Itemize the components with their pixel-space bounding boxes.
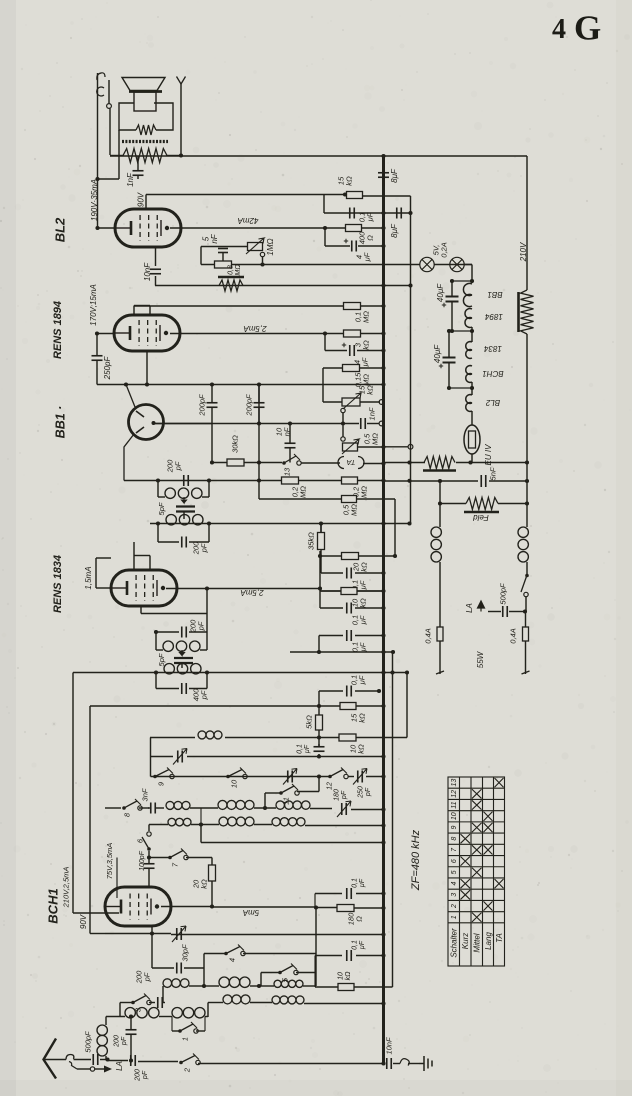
capacitor 250pF: [92, 355, 103, 357]
node (320,588.5): [318, 586, 322, 590]
label 5pF a: [157, 502, 166, 515]
label BCH1: [46, 888, 61, 923]
label 180pF: [334, 789, 349, 801]
label 0.1uF h: [352, 878, 367, 888]
wire x201 drop: [200, 825, 202, 843]
coil osc2b: [272, 996, 280, 1004]
svg-text:RENS 1834: RENS 1834: [52, 555, 64, 613]
node (449,388): [447, 386, 451, 390]
node (383.5,908): [381, 906, 385, 910]
capacitor 0.1uF d: [346, 630, 348, 641]
wire sw5 line: [261, 972, 280, 974]
node (147,384): [145, 382, 149, 386]
wire screen up x116: [116, 858, 118, 899]
label 0.1uF c: [351, 615, 368, 626]
svg-text:kΩ: kΩ: [360, 562, 369, 572]
label 0.15M: [354, 372, 371, 387]
switch table grid: [448, 777, 505, 966]
wire y246 left seg: [201, 246, 248, 248]
node (383.5,1003.5): [381, 1001, 385, 1005]
label 1: [181, 1037, 190, 1041]
BB1 electrodes: [136, 411, 144, 433]
svg-text:kΩ: kΩ: [200, 879, 209, 889]
svg-text:pF: pF: [142, 1070, 149, 1080]
label 10nF b: [275, 427, 292, 436]
node (181,155.5): [179, 153, 183, 157]
svg-text:12: 12: [326, 782, 333, 790]
wire x150 drop: [150, 738, 152, 777]
label 250pF: [358, 786, 373, 799]
node (383.5,246): [381, 244, 385, 248]
capacitor 0.1uF h: [346, 888, 348, 899]
node T (325,228): [323, 226, 327, 230]
svg-text:Lang: Lang: [484, 932, 493, 950]
svg-text:0,4A: 0,4A: [509, 628, 518, 643]
tube BCH1: [105, 887, 171, 926]
svg-text:8μF: 8μF: [390, 223, 399, 238]
wire y228 to bus: [361, 227, 384, 229]
svg-text:1834: 1834: [484, 344, 502, 353]
node (410.5,285.5): [408, 283, 412, 287]
wire 1894 grid legs: [134, 305, 150, 307]
node (449,331)b: [447, 329, 451, 333]
label RENS1894: [52, 301, 64, 359]
wire 40uF b links: [449, 387, 472, 389]
svg-text:nF: nF: [283, 427, 292, 436]
tube RENS1894: [114, 315, 180, 351]
node (259,480.5): [257, 478, 261, 482]
node (265,808): [263, 806, 267, 810]
label 0.1uF d: [351, 642, 368, 653]
wire y556: [321, 555, 341, 557]
capacitor 5pF a: [176, 507, 195, 512]
node (393,652): [391, 650, 395, 654]
coil ant main: [125, 1008, 135, 1018]
node (319,756.5): [317, 754, 321, 758]
wire 1834 screen loop: [206, 589, 208, 614]
svg-text:kΩ: kΩ: [345, 176, 354, 186]
node (410.5,213): [408, 211, 412, 215]
lamp 1: [420, 257, 434, 271]
label Feld: [473, 513, 489, 522]
capacitor 40uF b: [443, 357, 456, 359]
label 35k: [307, 532, 316, 550]
capacitor 5nF: [218, 248, 228, 250]
wire x440 end: [439, 641, 441, 674]
resistor 10k a: [341, 588, 357, 595]
label 0.1M a: [354, 311, 371, 323]
node (383.5,825.5): [381, 823, 385, 827]
svg-text:200: 200: [135, 1069, 142, 1082]
antenna arrow LA b: [478, 601, 485, 612]
capacitor 0.1uF b: [346, 568, 348, 579]
label 10nF c: [385, 1037, 394, 1055]
capacitor 400pF: [181, 683, 183, 694]
wire x525 end: [525, 641, 527, 674]
wire 20k stub: [211, 858, 213, 866]
label 0.8MOhm: [228, 264, 243, 276]
wire y913 to tube: [73, 912, 119, 914]
svg-text:MΩ: MΩ: [360, 486, 369, 498]
wire BL2 cathode down x155: [155, 247, 157, 266]
resistor Feld: [466, 498, 498, 510]
svg-text:30pF: 30pF: [181, 944, 190, 962]
wire BL2 left: [98, 227, 116, 229]
node (395,556): [393, 554, 397, 558]
resistor 30k: [227, 459, 244, 466]
switch 11: [279, 791, 283, 795]
svg-text:G: G: [574, 9, 601, 48]
wire branch x325 b: [324, 334, 326, 351]
capacitor 4uF b: [349, 345, 351, 356]
node (201,824.5): [199, 822, 203, 826]
node (97,333.5): [95, 331, 99, 335]
node (383.5,573): [381, 571, 385, 575]
wire x201 jog: [200, 247, 202, 265]
wire grid drop x152: [151, 926, 153, 934]
heater BL2: [466, 395, 472, 404]
node (383.5,333.5): [381, 331, 385, 335]
heater 1894: [465, 309, 472, 319]
wire grid tap 1834: [134, 555, 150, 557]
node (345,194.5): [343, 192, 347, 196]
node (212,384): [210, 382, 214, 386]
label 500pF a: [84, 1031, 93, 1053]
wire v x527 seg2: [526, 334, 528, 463]
switch 9: [153, 775, 157, 779]
wire sw3 left: [120, 1002, 133, 1004]
capacitor 200pF a: [207, 402, 218, 404]
node (383.5,591): [381, 589, 385, 593]
svg-text:TA: TA: [346, 458, 355, 467]
node (320,556): [318, 554, 322, 558]
svg-text:1nF: 1nF: [126, 172, 135, 187]
svg-text:5: 5: [451, 870, 458, 874]
node (107.5,1059.5): [105, 1057, 109, 1061]
trimmer cap a: [177, 751, 179, 763]
node (158,523.5): [156, 521, 160, 525]
wire 1834 left: [96, 587, 111, 589]
node (383.5,368): [381, 366, 385, 370]
wire x163 v: [162, 986, 164, 1003]
wire rail y652: [290, 651, 393, 653]
wire y591 (1834 plate ext): [320, 590, 384, 592]
node (452,331): [450, 329, 454, 333]
resistor 400: [346, 225, 362, 232]
node (383.5,285.5): [381, 283, 385, 287]
tube BB1 circle: [129, 405, 164, 440]
label heater BB1: [487, 290, 502, 299]
svg-text:200pF: 200pF: [245, 394, 254, 417]
node (321,523.5): [319, 521, 323, 525]
node (383.5,350.5): [381, 348, 385, 352]
svg-text:5pF: 5pF: [157, 502, 166, 515]
node (383.5,842.5): [381, 840, 385, 844]
coil A2: [168, 818, 176, 826]
terminal circle (92.5,1069): [90, 1067, 94, 1071]
wire x527 sw to 500p: [525, 597, 527, 611]
wire y246: [325, 245, 350, 247]
wire speaker-left rail x97 top: [97, 73, 99, 179]
switch 13: [282, 461, 286, 465]
heater BB1: [463, 283, 472, 295]
label 10k b: [349, 744, 366, 754]
node (527,481): [525, 479, 529, 483]
svg-text:Mittel: Mittel: [473, 933, 482, 952]
label 3nF: [141, 788, 150, 801]
node (343,423.5): [341, 421, 345, 425]
capacitor 1nF b: [360, 418, 362, 429]
capacitor 200pF i: [126, 1029, 137, 1031]
node (383.5,955.5): [381, 953, 385, 957]
label 3: [134, 1007, 143, 1012]
label 55W: [476, 650, 485, 668]
resistor 180: [337, 905, 354, 912]
wire x525 to fuse: [525, 612, 527, 628]
node (392.5,672.5): [390, 670, 394, 674]
label 0.1uF g: [352, 940, 367, 950]
svg-text:13: 13: [451, 779, 458, 787]
label 200pF f: [135, 970, 152, 984]
speaker driver box: [134, 92, 156, 111]
svg-text:kΩ: kΩ: [345, 971, 352, 981]
resistor 0.2M a: [282, 477, 299, 484]
wire x259 drop2: [258, 481, 260, 500]
svg-text:Ω: Ω: [366, 235, 375, 241]
node (156,672.5): [154, 670, 158, 674]
label 0.1uF f: [297, 744, 312, 754]
terminal circle (381.5,402): [379, 400, 384, 405]
node (383.5,463.5): [381, 461, 385, 465]
wire x319 5k seg: [318, 706, 320, 715]
capacitor 200pF d: [181, 537, 183, 548]
label 5nF b: [489, 467, 498, 480]
svg-text:kΩ: kΩ: [366, 385, 375, 395]
label 11: [282, 797, 291, 805]
svg-text:10nF: 10nF: [143, 262, 152, 281]
resistor 10k b: [339, 734, 356, 741]
coil osc coupling: [172, 1008, 182, 1018]
svg-text:pF: pF: [365, 787, 372, 797]
label EU IV: [484, 444, 493, 466]
label 0.4A left: [424, 628, 433, 643]
resistor 35k: [318, 533, 325, 550]
coil IF1 primary: [165, 488, 175, 498]
switch table headers: [450, 928, 459, 958]
capacitor 200pF b: [254, 402, 265, 404]
svg-text:μF: μF: [359, 615, 368, 625]
wire corner x407: [406, 673, 408, 738]
ground symbol: [419, 1056, 432, 1071]
label LA b: [465, 603, 474, 613]
coil IF1 secondary: [166, 515, 176, 525]
capacitor 0.1uF f: [314, 746, 325, 748]
wire x321 seg2: [320, 556, 322, 573]
node (383.5,608): [381, 606, 385, 610]
wire BL2 plate rail y228: [170, 227, 346, 229]
wire sw1 stubs: [172, 1030, 180, 1032]
label 200pF c: [166, 459, 183, 473]
capacitor 200pF h: [130, 1055, 132, 1066]
svg-text:Feld: Feld: [473, 513, 489, 522]
wire y608: [320, 607, 343, 609]
wire x319 0.1uF seg: [318, 754, 320, 757]
label heater 1834: [484, 344, 502, 353]
svg-text:90V: 90V: [136, 192, 145, 207]
potentiometer 1M: [248, 243, 263, 251]
label 5pF b: [157, 653, 166, 666]
svg-text:MΩ: MΩ: [371, 433, 380, 445]
node (383.5,893.5): [381, 891, 385, 895]
resistor surge y462: [424, 457, 455, 469]
label 7: [171, 862, 180, 867]
wire y368: [323, 367, 343, 369]
IF1 frame bottom: [157, 524, 159, 543]
svg-text:200: 200: [114, 1035, 121, 1048]
wire x259 drop: [258, 385, 260, 481]
wire x204 v: [203, 954, 205, 987]
svg-text:1MΩ: 1MΩ: [266, 238, 275, 255]
node (131,1016.5): [129, 1014, 133, 1018]
label 200pF b: [245, 394, 254, 417]
resistor 10k c: [338, 984, 354, 991]
label 10nF: [143, 262, 152, 281]
transformer laminations: [122, 140, 168, 143]
node (409.5,523.5): [407, 521, 411, 525]
capacitor 500pF b: [502, 606, 504, 617]
svg-text:8μF: 8μF: [390, 168, 399, 183]
label 5k: [305, 715, 314, 729]
svg-text:75V,3,5mA: 75V,3,5mA: [105, 843, 114, 880]
node (409.5,480.8): [407, 479, 411, 483]
label heater 1894: [485, 312, 503, 321]
switch 1: [178, 1029, 182, 1033]
wire sw rail y776: [151, 776, 331, 778]
svg-text:kΩ: kΩ: [359, 598, 368, 608]
svg-text:6: 6: [451, 859, 458, 863]
label 0.1uF e: [350, 675, 367, 686]
wire corner x324: [323, 195, 325, 214]
node junction (383.5,156): [381, 154, 385, 158]
IF2 frame: [155, 632, 157, 650]
svg-text:ZF=480 kHz: ZF=480 kHz: [410, 829, 422, 891]
wire rail y756: [151, 756, 174, 758]
node (262.5,264.5): [260, 262, 264, 266]
svg-text:pF: pF: [174, 461, 183, 471]
node (259,462.5): [257, 460, 261, 464]
svg-text:EU IV: EU IV: [484, 444, 493, 466]
svg-text:MΩ: MΩ: [362, 311, 371, 323]
wire heater drop: [471, 265, 473, 284]
node (383.5,213): [381, 211, 385, 215]
wire 1nF line y179: [98, 178, 120, 180]
svg-text:Schalter: Schalter: [450, 928, 459, 958]
wire ant line: [44, 1059, 67, 1061]
capacitor 200pF e: [181, 627, 183, 638]
node (156,632): [154, 630, 158, 634]
wire y213 right seg: [384, 212, 411, 214]
fuse 0.4A right: [523, 627, 529, 641]
node (259,423.5): [257, 421, 261, 425]
svg-text:250pF: 250pF: [103, 356, 112, 381]
capacitor 200pF g: [157, 997, 159, 1008]
wire sw7 line: [149, 857, 170, 859]
label 3k: [354, 340, 371, 350]
label 0.1uF a: [358, 212, 375, 223]
label 100pF: [139, 850, 146, 871]
label 4uF b: [353, 357, 370, 367]
capacitor 10nF: [150, 268, 161, 270]
trimmer cap b: [287, 771, 289, 783]
wire x120 v: [119, 1003, 121, 1017]
node (383.5,756.5): [381, 754, 385, 758]
wire x201 link: [200, 808, 202, 825]
coil IF2 primary: [163, 641, 173, 651]
node (259,384): [257, 382, 261, 386]
svg-text:MΩ: MΩ: [235, 264, 242, 276]
node (212,906.5): [210, 904, 214, 908]
svg-text:BCH1: BCH1: [46, 888, 61, 923]
wire v x393: [392, 652, 394, 987]
wire top rail y156: [110, 155, 527, 157]
resistor 0.8M: [215, 261, 232, 268]
resistor 15k b: [340, 703, 356, 710]
wire bus bold x383.5: [382, 156, 385, 1064]
node (319,706): [317, 704, 321, 708]
switch 6: [147, 847, 151, 851]
IF2 frame bottom: [155, 673, 157, 689]
svg-text:42mA: 42mA: [238, 216, 259, 225]
label 250pF: [103, 356, 112, 381]
label 0.2M a: [291, 486, 308, 498]
svg-text:30kΩ: 30kΩ: [231, 435, 240, 453]
svg-text:4: 4: [228, 958, 237, 962]
wire corner x395: [394, 499, 396, 556]
wire x149 corner: [148, 825, 150, 832]
svg-text:kΩ: kΩ: [358, 713, 367, 723]
node (440,503.5): [438, 501, 442, 505]
node (407,672.5): [405, 670, 409, 674]
label 5mA: [243, 908, 259, 917]
wire 1894 plate rail y333: [170, 333, 344, 335]
svg-text:10nF: 10nF: [385, 1037, 394, 1055]
capacitor 0.1uF c: [346, 603, 348, 614]
svg-text:2: 2: [183, 1067, 192, 1073]
svg-text:500pF: 500pF: [499, 583, 508, 605]
capacitor 5nF b: [480, 475, 482, 487]
label 210V: [519, 242, 528, 262]
svg-text:210V: 210V: [519, 242, 528, 262]
label 200pF a: [198, 394, 207, 417]
wire y285 rail: [155, 285, 411, 287]
capacitor 0.1uF g: [346, 950, 348, 961]
wire x316 v2: [315, 954, 317, 987]
label ZF=480kHz: [410, 829, 422, 891]
switch 10: [226, 775, 230, 779]
node (383.5,635.5): [381, 633, 385, 637]
wire pot15 wiper: [341, 408, 345, 412]
node (470.5,462.5): [468, 460, 472, 464]
IF1 frame top: [157, 481, 159, 498]
resistor 0.5M b: [342, 496, 357, 503]
coil A1: [166, 801, 174, 809]
coil C2: [272, 818, 280, 826]
coil osc1b: [274, 980, 281, 987]
capacitor 1nF: [133, 170, 144, 172]
switch 5: [278, 971, 282, 975]
wire row y808: [105, 807, 121, 809]
resistor 15k: [347, 192, 363, 199]
